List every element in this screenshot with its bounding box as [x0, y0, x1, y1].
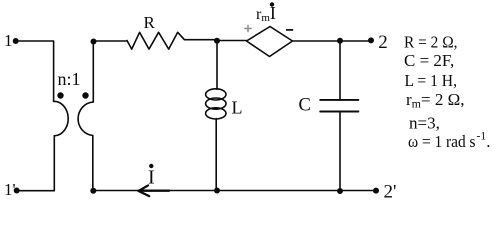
svg-text:R = 2 Ω,: R = 2 Ω, [404, 33, 458, 52]
svg-text:n=3,: n=3, [409, 114, 440, 133]
svg-text:C: C [299, 95, 311, 115]
svg-text:1: 1 [4, 31, 13, 50]
svg-text:2': 2' [384, 182, 397, 203]
svg-text:n:1: n:1 [58, 69, 81, 89]
svg-text:R: R [144, 13, 156, 32]
svg-text:-1: -1 [477, 131, 487, 143]
svg-text:C = 2F,: C = 2F, [404, 51, 454, 70]
svg-text:ω = 1 rad s: ω = 1 rad s [408, 132, 476, 151]
svg-text:rmI: rmI [256, 3, 276, 24]
svg-text:rm= 2 Ω,: rm= 2 Ω, [406, 90, 465, 111]
svg-text:I: I [148, 167, 155, 189]
svg-text:2: 2 [378, 32, 388, 53]
svg-text:.: . [486, 132, 490, 151]
svg-text:L: L [232, 98, 243, 118]
svg-text:L = 1 H,: L = 1 H, [405, 71, 458, 90]
svg-text:1': 1' [4, 180, 16, 199]
